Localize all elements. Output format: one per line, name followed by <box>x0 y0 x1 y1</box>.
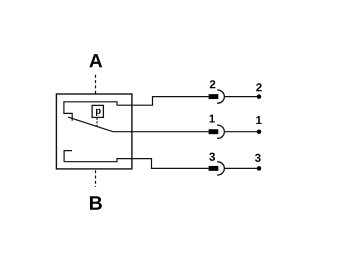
node A label <box>89 54 102 67</box>
connector pin 1 plug contact <box>209 129 219 134</box>
terminal label 1 <box>256 116 261 124</box>
wire pin 3 to terminal 3 <box>224 167 259 169</box>
terminal dot 1 <box>257 129 262 134</box>
pin label 1 <box>210 115 215 123</box>
terminal label 2 <box>256 83 262 91</box>
wire net 2 (box exit to plug 2) <box>132 97 209 106</box>
node B label <box>90 196 102 209</box>
port A dashed stem <box>95 75 97 94</box>
wire net 1 (lever to plug 1) <box>113 131 209 133</box>
port B dashed stem <box>95 170 97 187</box>
wire pin 1 to terminal 1 <box>224 131 259 133</box>
connector pin 2 socket arc <box>217 90 224 103</box>
actuator dashed link <box>96 118 98 127</box>
pin label 2 <box>210 80 216 88</box>
terminal label 3 <box>255 154 261 162</box>
wire net 3 (box exit to plug 3) <box>132 159 209 169</box>
fixed contact of terminal 2 <box>64 102 132 121</box>
switch lever (common contact) <box>68 117 113 132</box>
pin label 3 <box>209 153 215 161</box>
actuator letter p <box>96 109 101 116</box>
fixed contact of terminal 3 <box>64 151 132 162</box>
terminal dot 3 <box>257 166 262 171</box>
pressure switch enclosure box <box>56 94 131 169</box>
pressure actuator box <box>92 105 103 117</box>
terminal dot 2 <box>257 94 262 99</box>
connector pin 3 plug contact <box>209 166 219 171</box>
connector pin 3 socket arc <box>217 162 224 175</box>
connector pin 2 plug contact <box>209 94 219 99</box>
connector pin 1 socket arc <box>217 125 224 138</box>
wire pin 2 to terminal 2 <box>224 96 259 98</box>
